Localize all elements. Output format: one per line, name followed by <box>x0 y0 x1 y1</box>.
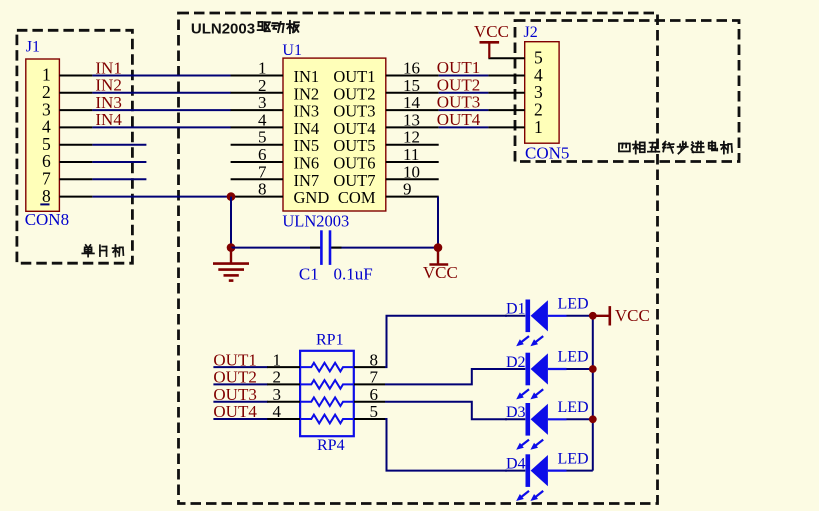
svg-text:LED: LED <box>558 399 589 416</box>
svg-text:IN2: IN2 <box>95 76 121 95</box>
svg-text:LED: LED <box>558 296 589 313</box>
svg-text:OUT4: OUT4 <box>437 110 481 129</box>
svg-text:CON8: CON8 <box>25 210 69 229</box>
svg-text:IN3: IN3 <box>294 102 320 121</box>
svg-text:IN1: IN1 <box>95 58 121 77</box>
svg-text:OUT3: OUT3 <box>333 102 375 121</box>
svg-text:9: 9 <box>403 180 412 199</box>
svg-text:GND: GND <box>294 188 330 207</box>
svg-text:6: 6 <box>370 385 379 404</box>
svg-text:D1: D1 <box>506 301 526 318</box>
svg-text:RP4: RP4 <box>317 437 345 454</box>
svg-text:OUT2: OUT2 <box>437 75 480 94</box>
svg-text:1: 1 <box>273 350 282 369</box>
svg-text:8: 8 <box>42 186 51 206</box>
svg-text:COM: COM <box>338 188 376 207</box>
svg-text:IN2: IN2 <box>294 84 320 103</box>
svg-text:6: 6 <box>258 145 267 164</box>
svg-text:D4: D4 <box>506 455 526 472</box>
svg-text:VCC: VCC <box>474 22 509 41</box>
svg-text:J1: J1 <box>26 38 40 55</box>
svg-text:OUT2: OUT2 <box>213 368 256 387</box>
svg-text:4: 4 <box>273 402 282 421</box>
svg-text:OUT6: OUT6 <box>333 154 375 173</box>
svg-text:7: 7 <box>370 368 379 387</box>
svg-text:VCC: VCC <box>423 263 458 282</box>
svg-text:IN1: IN1 <box>294 67 320 86</box>
svg-text:OUT3: OUT3 <box>213 385 256 404</box>
svg-text:8: 8 <box>370 350 379 369</box>
svg-text:VCC: VCC <box>615 306 650 325</box>
svg-text:IN6: IN6 <box>294 154 320 173</box>
svg-text:11: 11 <box>403 145 419 164</box>
svg-text:7: 7 <box>258 162 267 181</box>
svg-text:OUT4: OUT4 <box>213 402 257 421</box>
svg-text:OUT1: OUT1 <box>213 350 256 369</box>
svg-text:C1: C1 <box>299 265 319 284</box>
svg-text:ULN2003: ULN2003 <box>282 211 349 230</box>
svg-text:LED: LED <box>558 349 589 366</box>
svg-text:0.1uF: 0.1uF <box>334 265 373 284</box>
svg-text:2: 2 <box>273 368 282 387</box>
svg-text:13: 13 <box>403 110 420 129</box>
svg-text:2: 2 <box>258 76 267 95</box>
svg-text:3: 3 <box>273 385 282 404</box>
svg-text:15: 15 <box>403 76 420 95</box>
svg-text:OUT1: OUT1 <box>437 58 480 77</box>
svg-text:U1: U1 <box>282 42 302 59</box>
svg-text:LED: LED <box>558 450 589 467</box>
svg-text:12: 12 <box>403 128 420 147</box>
svg-text:3: 3 <box>258 93 267 112</box>
svg-text:OUT1: OUT1 <box>333 67 375 86</box>
svg-text:IN3: IN3 <box>95 93 121 112</box>
svg-text:CON5: CON5 <box>525 144 569 163</box>
svg-text:OUT7: OUT7 <box>333 171 375 190</box>
svg-text:OUT5: OUT5 <box>333 136 375 155</box>
svg-text:OUT3: OUT3 <box>437 93 480 112</box>
svg-text:OUT4: OUT4 <box>333 119 375 138</box>
svg-text:D3: D3 <box>506 404 526 421</box>
svg-text:OUT2: OUT2 <box>333 84 375 103</box>
svg-text:IN7: IN7 <box>294 171 320 190</box>
svg-text:J2: J2 <box>524 24 538 41</box>
svg-text:5: 5 <box>258 128 267 147</box>
svg-text:IN5: IN5 <box>294 136 320 155</box>
svg-text:IN4: IN4 <box>294 119 320 138</box>
svg-text:8: 8 <box>258 180 267 199</box>
svg-text:4: 4 <box>258 110 267 129</box>
svg-text:10: 10 <box>403 162 420 181</box>
svg-text:16: 16 <box>403 59 420 78</box>
svg-text:1: 1 <box>534 117 543 137</box>
svg-text:D2: D2 <box>506 354 526 371</box>
svg-text:IN4: IN4 <box>95 110 122 129</box>
svg-text:5: 5 <box>370 402 379 421</box>
svg-text:14: 14 <box>403 93 421 112</box>
svg-text:1: 1 <box>258 59 267 78</box>
svg-text:RP1: RP1 <box>316 332 344 349</box>
svg-text:ULN2003: ULN2003 <box>191 21 255 38</box>
